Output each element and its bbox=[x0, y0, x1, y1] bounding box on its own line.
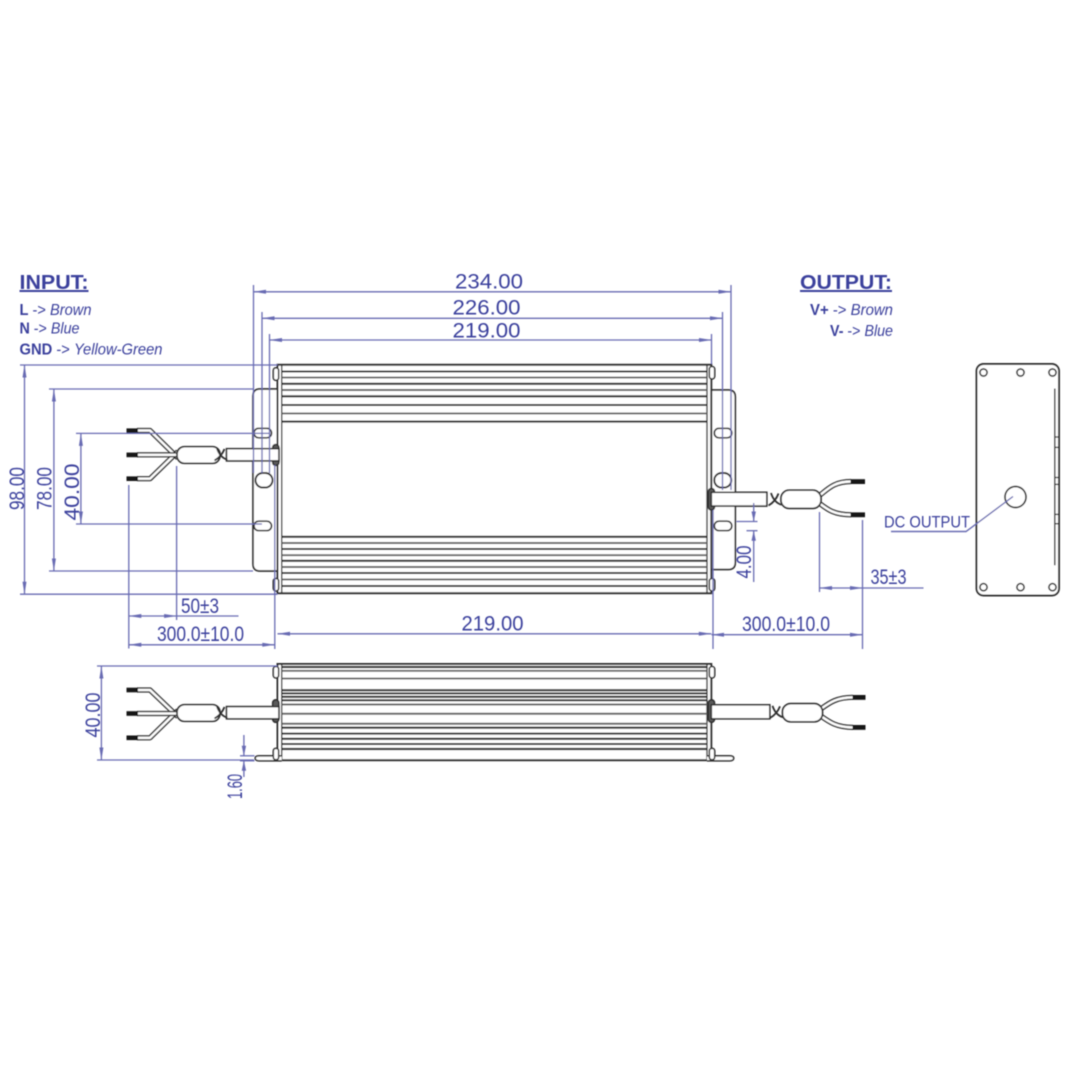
right bracket oval hole bbox=[714, 473, 731, 488]
DC output cable jacket (side view) bbox=[711, 705, 770, 719]
cable exit tab left (side view) bbox=[273, 700, 279, 723]
left mounting bracket plate (top view) bbox=[253, 389, 282, 571]
dim 300.0±10.0 right (output cable length) bbox=[712, 510, 714, 649]
wire tip L bbox=[127, 428, 139, 433]
wire tip V+ bbox=[851, 479, 866, 484]
DC output cable jacket leaving body (top view) bbox=[711, 492, 767, 506]
side wire tips bbox=[127, 688, 139, 693]
side view left mounting foot bbox=[255, 756, 282, 761]
side view output wire up bbox=[818, 697, 853, 711]
left bracket bottom mounting slot bbox=[254, 521, 272, 531]
cable ferrule segment (top view left) bbox=[177, 447, 220, 464]
cable twist marking (side view right) bbox=[770, 706, 780, 718]
output wire V+ (curving up, black tip) bbox=[817, 482, 851, 498]
svg-text:INPUT:: INPUT: bbox=[20, 272, 89, 294]
body end-cap seam lines bbox=[281, 365, 283, 593]
svg-text:40.00: 40.00 bbox=[61, 464, 84, 521]
svg-text:L -> Brown: L -> Brown bbox=[20, 302, 92, 319]
svg-text:35±3: 35±3 bbox=[871, 566, 907, 589]
cable ferrule segment (top view right) bbox=[781, 490, 821, 508]
output wire V- (curving down, black tip) bbox=[817, 502, 851, 515]
svg-text:1.60: 1.60 bbox=[224, 774, 247, 799]
dim 1.60 (foot thickness) bbox=[240, 755, 255, 757]
right bracket top mounting slot bbox=[714, 428, 732, 438]
dim 300.0±10.0 left (input cable length) bbox=[274, 465, 276, 649]
end-cap corner tabs (side view) bbox=[273, 667, 278, 679]
side view end-cap seams bbox=[281, 664, 283, 760]
cable twist marking (top view left) bbox=[215, 449, 225, 461]
dim 234.00 (overall length) bbox=[254, 291, 732, 293]
AC input cable jacket entering body (top view) bbox=[227, 449, 280, 461]
svg-text:V- -> Blue: V- -> Blue bbox=[830, 323, 893, 340]
wire tip GND bbox=[127, 476, 139, 481]
svg-text:V+ -> Brown: V+ -> Brown bbox=[810, 302, 893, 319]
side wire tips right bbox=[853, 695, 866, 700]
heatsink fins upper (top view) bbox=[282, 370, 707, 372]
left bracket oval hole bbox=[256, 473, 273, 488]
end view screw holes bottom bbox=[980, 584, 987, 591]
cable exit tab left (top view) bbox=[273, 445, 279, 466]
wire tip V- bbox=[851, 512, 866, 517]
svg-text:300.0±10.0: 300.0±10.0 bbox=[742, 613, 830, 636]
end-cap corner tabs (top view) bbox=[273, 368, 278, 381]
cable exit tab right (top view) bbox=[708, 489, 714, 511]
input wire GND (bottom, with black tip) bbox=[137, 452, 178, 479]
input wire L (top, with black tip) bbox=[137, 431, 178, 459]
svg-text:300.0±10.0: 300.0±10.0 bbox=[157, 623, 244, 646]
dim 35±3 (output stripped length) bbox=[819, 512, 821, 592]
end view fin-edge strip bbox=[1054, 389, 1056, 566]
dim 78.00 (bracket width) bbox=[49, 388, 253, 390]
input wire N (middle) bbox=[137, 452, 180, 457]
dim 219.00 bottom bbox=[278, 633, 712, 635]
power supply body (top view) bbox=[278, 365, 712, 593]
power supply body (side view) bbox=[278, 664, 712, 760]
AC input cable jacket (side view) bbox=[227, 707, 280, 719]
end view screw holes top bbox=[980, 369, 987, 376]
right mounting bracket plate (top view) bbox=[707, 390, 735, 570]
svg-text:GND -> Yellow-Green: GND -> Yellow-Green bbox=[20, 342, 163, 359]
svg-text:98.00: 98.00 bbox=[6, 467, 29, 510]
svg-text:219.00: 219.00 bbox=[462, 613, 524, 636]
side view input wire 1 bbox=[137, 690, 178, 717]
dim 98.00 (overall width) bbox=[20, 364, 278, 366]
cable ferrule (side view left) bbox=[177, 705, 220, 722]
dim 226.00 (slot spacing) bbox=[262, 317, 723, 319]
svg-text:219.00: 219.00 bbox=[453, 320, 521, 343]
svg-text:234.00: 234.00 bbox=[455, 271, 523, 294]
dim 40.00 (slot to slot) bbox=[76, 432, 270, 434]
dim 4.00 (slot width) bbox=[737, 521, 758, 523]
heatsink fin lines (side view) bbox=[282, 666, 707, 668]
svg-text:50±3: 50±3 bbox=[181, 595, 219, 618]
side view output wire down bbox=[818, 714, 853, 727]
side view input wire 2 bbox=[137, 711, 180, 716]
svg-text:OUTPUT:: OUTPUT: bbox=[800, 272, 892, 294]
cable ferrule (side view right) bbox=[783, 704, 823, 722]
svg-text:40.00: 40.00 bbox=[82, 693, 105, 738]
cable exit tab right (side view) bbox=[708, 700, 714, 723]
DC output hole bbox=[1005, 487, 1026, 508]
wire tip N bbox=[127, 453, 139, 458]
right bracket bottom mounting slot bbox=[714, 521, 732, 531]
svg-text:4.00: 4.00 bbox=[733, 546, 756, 579]
svg-text:DC OUTPUT: DC OUTPUT bbox=[884, 513, 970, 532]
left bracket top mounting slot bbox=[254, 428, 272, 438]
dim 219.00 top (case length) bbox=[270, 339, 712, 341]
dim 50±3 (stripped length) bbox=[128, 485, 130, 649]
end view plate bbox=[977, 364, 1060, 596]
dim 40.00 (side view height) bbox=[97, 665, 278, 667]
side view right mounting foot bbox=[707, 756, 734, 761]
svg-text:226.00: 226.00 bbox=[453, 297, 521, 320]
svg-text:78.00: 78.00 bbox=[34, 467, 57, 510]
cable twist marking (top view right) bbox=[769, 494, 779, 506]
svg-text:N -> Blue: N -> Blue bbox=[20, 321, 80, 338]
heatsink fins lower (top view) bbox=[282, 536, 707, 538]
side view input wire 3 bbox=[137, 710, 178, 737]
cable twist marking (side view left) bbox=[215, 707, 225, 719]
